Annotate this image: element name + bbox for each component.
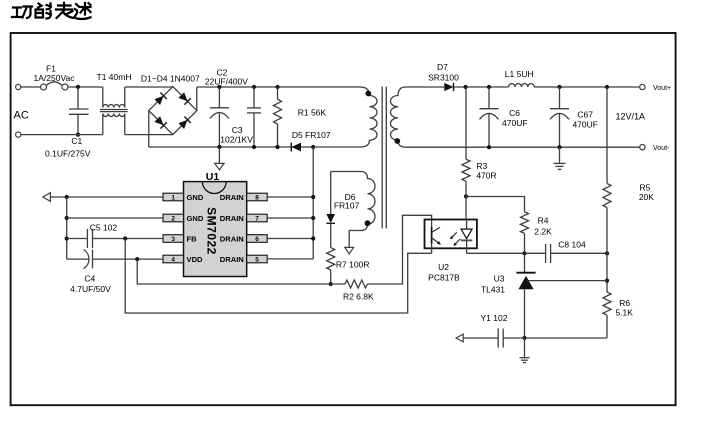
- svg-text:D7: D7: [437, 62, 448, 72]
- svg-text:470UF: 470UF: [572, 119, 598, 129]
- node auxiliary polarity dot: [365, 220, 371, 226]
- wire LED cathode to node: [467, 252, 525, 254]
- pin 2 box: [163, 214, 184, 222]
- node pin8 junction: [311, 195, 315, 199]
- svg-text:T1 40mH: T1 40mH: [97, 72, 132, 82]
- capacitor C67 electrolytic: [559, 87, 561, 109]
- arrow Y1 off-page: [456, 334, 463, 342]
- wire D7 to L1: [454, 86, 509, 88]
- wire fuse to T1: [68, 86, 103, 88]
- svg-text:R2 6.8K: R2 6.8K: [343, 292, 374, 302]
- photodiode LED inside U2: [466, 220, 468, 230]
- fuse F1: [41, 84, 47, 90]
- svg-text:5: 5: [255, 256, 259, 263]
- wire emitter out: [431, 244, 433, 254]
- node C3 bottom: [252, 145, 256, 149]
- svg-text:FB: FB: [187, 234, 198, 243]
- diode D6: [326, 214, 335, 223]
- resistor R4: [521, 212, 529, 234]
- wire R4 to C8 node: [524, 233, 526, 253]
- node VDD branch: [135, 257, 139, 261]
- svg-text:R6: R6: [619, 298, 630, 308]
- wire pin5: [267, 258, 313, 260]
- node R7/R2 junction: [329, 282, 333, 286]
- wire node to R4: [466, 197, 525, 212]
- wire U3 anode: [524, 289, 526, 338]
- resistor R3: [462, 159, 470, 181]
- node pin7 junction: [311, 216, 315, 220]
- wire FB bottom loop: [125, 239, 431, 314]
- node C6 bottom: [487, 145, 491, 149]
- wire Y1 right: [503, 337, 607, 339]
- pin 3 box: [163, 235, 184, 243]
- terminal Vout+: [640, 84, 645, 89]
- node pin3 branch: [65, 236, 69, 240]
- inductor T1 (common mode choke): [103, 87, 125, 108]
- svg-text:5.1K: 5.1K: [615, 308, 633, 318]
- capacitor C4 electrolytic: [84, 250, 89, 269]
- wire pin4 left segment: [67, 258, 90, 260]
- svg-text:4: 4: [171, 256, 175, 263]
- node C2 top: [217, 85, 221, 89]
- wire R5 to R6: [606, 208, 608, 293]
- svg-text:Vout+: Vout+: [653, 85, 671, 92]
- wire Y1 left: [463, 337, 498, 339]
- wire L1 to Vout+: [534, 86, 639, 88]
- op-amp U2 box (PC817B): [425, 220, 477, 249]
- svg-text:22UF/400V: 22UF/400V: [205, 76, 248, 86]
- node R1 bottom: [275, 145, 279, 149]
- node TL431 ref junction: [605, 279, 609, 283]
- transformer auxiliary winding: [331, 172, 375, 248]
- terminal Vout-: [640, 145, 645, 150]
- svg-text:R7 100R: R7 100R: [336, 260, 370, 270]
- node D7 output: [464, 85, 468, 89]
- wire U3 cathode: [524, 253, 526, 272]
- capacitor C3: [253, 87, 255, 108]
- node secondary polarity dot: [394, 138, 400, 144]
- node C1 top: [76, 85, 80, 89]
- wire bridge left corner to neg rail: [148, 111, 150, 147]
- svg-text:Vout-: Vout-: [653, 145, 670, 152]
- diode D5: [292, 143, 302, 152]
- pin 5 box: [247, 255, 268, 263]
- svg-text:TL431: TL431: [481, 285, 505, 295]
- pin 7 box: [247, 214, 268, 222]
- wire U3 ref: [527, 280, 607, 282]
- svg-text:C67: C67: [577, 109, 593, 119]
- svg-text:C1: C1: [71, 136, 82, 146]
- wire left bus vertical: [66, 197, 68, 259]
- pin 6 box: [247, 235, 268, 243]
- svg-text:D5 FR107: D5 FR107: [292, 130, 331, 140]
- svg-text:DRAIN: DRAIN: [220, 193, 244, 202]
- svg-text:GND: GND: [187, 193, 204, 202]
- svg-text:C6: C6: [509, 108, 520, 118]
- svg-text:8: 8: [255, 194, 259, 201]
- diode D7: [444, 83, 453, 91]
- node primary polarity dot: [365, 91, 371, 97]
- node Y1 junction: [522, 336, 526, 340]
- node pin1 branch: [65, 195, 69, 199]
- capacitor Y1: [497, 329, 499, 348]
- wire pin8: [267, 196, 313, 198]
- wire R6 to Y1 line: [606, 315, 608, 338]
- svg-text:20K: 20K: [639, 192, 654, 202]
- node C3 top: [252, 85, 256, 89]
- wire Vout- rail: [406, 146, 640, 148]
- svg-text:R3: R3: [476, 161, 487, 171]
- svg-text:PC817B: PC817B: [428, 273, 460, 283]
- pin 1 box: [163, 193, 184, 201]
- svg-text:2.2K: 2.2K: [534, 227, 552, 237]
- arrow auxiliary return: [345, 247, 354, 254]
- svg-text:470R: 470R: [476, 171, 496, 181]
- wire C8 left: [525, 252, 546, 254]
- svg-text:AC: AC: [14, 110, 29, 122]
- wire pin3 right segment: [93, 238, 164, 240]
- node drain junction on D5 line: [311, 145, 315, 149]
- svg-text:D1~D4 1N4007: D1~D4 1N4007: [141, 74, 200, 84]
- svg-text:R5: R5: [639, 182, 650, 192]
- wire VDD drop: [137, 259, 345, 284]
- title text 功能表述: [12, 7, 32, 19]
- svg-text:L1 5UH: L1 5UH: [505, 69, 534, 79]
- node pin2 branch: [65, 216, 69, 220]
- svg-text:DRAIN: DRAIN: [220, 234, 244, 243]
- diode D2 (bridge top-right): [178, 92, 191, 105]
- svg-text:2: 2: [171, 215, 175, 222]
- wire LED anode: [465, 197, 467, 220]
- svg-text:C8 104: C8 104: [558, 240, 586, 250]
- svg-text:SM7022: SM7022: [205, 207, 219, 255]
- svg-text:R4: R4: [538, 216, 549, 226]
- wire secondary top to D7: [406, 86, 445, 88]
- node C67 top: [557, 85, 561, 89]
- wire R3 to LED node: [465, 181, 467, 196]
- node C1 bottom: [76, 133, 80, 137]
- wire pin3 left segment: [67, 238, 88, 240]
- wire negative rail: [149, 146, 313, 148]
- transformer secondary winding: [391, 87, 406, 147]
- wire R7 to R2 line: [330, 270, 332, 284]
- wire T1 to bridge top: [125, 86, 173, 88]
- svg-text:C4: C4: [84, 274, 95, 284]
- resistor R6: [603, 292, 611, 315]
- svg-text:7: 7: [255, 215, 259, 222]
- wire top rail after bridge: [197, 86, 360, 88]
- svg-text:SR3100: SR3100: [428, 72, 459, 82]
- wire bridge right corner up: [196, 87, 198, 111]
- svg-text:F1: F1: [46, 64, 56, 74]
- transistor Q inside U2: [431, 227, 433, 244]
- resistor R7: [327, 248, 335, 270]
- svg-text:1: 1: [171, 194, 175, 201]
- svg-text:4.7UF/50V: 4.7UF/50V: [70, 284, 111, 294]
- svg-text:102/1KV: 102/1KV: [220, 134, 253, 144]
- svg-text:DRAIN: DRAIN: [220, 255, 244, 264]
- node C6 top: [487, 85, 491, 89]
- bridge rectifier D1~D4 diamond: [149, 87, 197, 135]
- wire AC bottom to T1: [21, 134, 103, 136]
- wire D6 to R7: [330, 223, 332, 247]
- svg-text:VDD: VDD: [187, 255, 204, 264]
- capacitor C1: [77, 87, 79, 109]
- svg-text:U2: U2: [438, 262, 449, 272]
- resistor R5: [603, 183, 611, 207]
- wire pin6: [267, 238, 313, 240]
- svg-text:R1 56K: R1 56K: [298, 108, 327, 118]
- svg-text:Y1 102: Y1 102: [481, 313, 508, 323]
- wire D7 node down to R3: [465, 87, 467, 159]
- svg-text:0.1UF/275V: 0.1UF/275V: [45, 148, 91, 158]
- transformer primary winding: [313, 87, 377, 147]
- capacitor C6 electrolytic: [488, 87, 490, 109]
- wire T1 to bridge bottom: [125, 134, 173, 136]
- capacitor C5: [86, 229, 88, 248]
- diode D3 (bridge bottom-left): [154, 116, 167, 129]
- svg-text:3: 3: [171, 236, 175, 243]
- svg-text:U3: U3: [494, 274, 505, 284]
- node C67 bottom: [557, 145, 561, 149]
- light arrows in U2: [451, 232, 457, 238]
- terminal AC top: [16, 84, 21, 89]
- wire pin2: [67, 217, 163, 219]
- wire R2 to opto collector: [367, 215, 431, 284]
- terminal AC bottom: [16, 132, 21, 137]
- svg-text:FR107: FR107: [334, 200, 360, 210]
- svg-text:C5 102: C5 102: [90, 223, 118, 233]
- wire AC top to fuse: [21, 86, 41, 88]
- wire aux to D6: [330, 172, 332, 215]
- svg-text:12V/1A: 12V/1A: [616, 112, 646, 122]
- capacitor C8: [545, 244, 547, 263]
- pin 8 box: [247, 193, 268, 201]
- wire pin4 right segment: [93, 258, 164, 260]
- svg-text:470UF: 470UF: [502, 118, 528, 128]
- wire R5 branch down: [606, 87, 608, 183]
- svg-text:GND: GND: [187, 214, 204, 223]
- op-amp U3 (TL431): [516, 272, 535, 274]
- resistor R2: [345, 280, 367, 288]
- pin 4 box: [163, 255, 184, 263]
- inductor L1: [509, 84, 535, 87]
- ground arrow below C2: [218, 147, 220, 163]
- node C8/R5 junction: [605, 251, 609, 255]
- svg-text:DRAIN: DRAIN: [220, 214, 244, 223]
- diode D1 (bridge top-left): [154, 93, 167, 106]
- node FB branch: [123, 236, 127, 240]
- wire C8 right: [551, 252, 607, 254]
- svg-text:6: 6: [255, 236, 259, 243]
- node C2 bottom: [217, 145, 221, 149]
- capacitor C2 electrolytic: [218, 87, 220, 108]
- node R3/LED/R4: [464, 194, 468, 198]
- wire pin7: [267, 217, 313, 219]
- wire drain bus vertical: [312, 147, 314, 259]
- svg-text:U1: U1: [206, 171, 220, 183]
- ground below U3: [524, 338, 526, 358]
- arrow pin1 off-page: [43, 193, 51, 202]
- svg-text:1A/250Vac: 1A/250Vac: [34, 73, 76, 83]
- diode D4 (bridge bottom-right): [178, 117, 191, 130]
- op-amp U1 body (SM7022): [184, 182, 247, 277]
- node R4/C8/U3: [522, 251, 526, 255]
- ground below C67: [559, 147, 561, 163]
- transformer core: [381, 87, 383, 229]
- node R5 branch: [605, 85, 609, 89]
- wire pin1: [50, 196, 163, 198]
- resistor R1: [277, 87, 279, 99]
- node pin6 junction: [311, 236, 315, 240]
- node R1 top: [275, 85, 279, 89]
